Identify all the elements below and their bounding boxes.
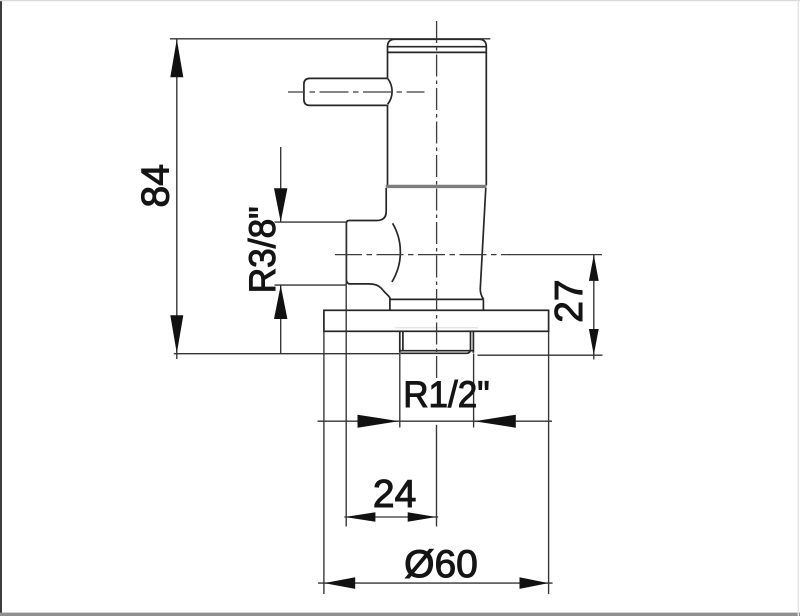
dim O60 extension right xyxy=(548,331,550,594)
cap seam line 1 xyxy=(388,46,487,48)
base ring left side xyxy=(389,299,391,310)
side port centerline extension (solid) xyxy=(507,254,602,256)
top cap outline xyxy=(388,39,487,53)
thread stub inner right xyxy=(470,331,472,350)
cylinder left wall upper xyxy=(387,53,389,78)
ball bulge arc xyxy=(392,223,400,282)
body left outline xyxy=(346,188,390,299)
dim 24 extension right / centerline lower xyxy=(436,425,438,527)
thread stub outer right xyxy=(472,331,474,353)
dim R3/8 extension top xyxy=(275,221,347,223)
dim 84 top extension line xyxy=(170,38,490,40)
thread tip line xyxy=(401,350,471,353)
arrow R1/2 left (points right) xyxy=(358,415,399,428)
arrow R3/8 lower (up) xyxy=(274,285,287,319)
dim 84 line xyxy=(176,39,178,359)
cylinder right wall xyxy=(485,53,487,185)
thread stub inner left xyxy=(402,331,404,350)
svg-text:24: 24 xyxy=(373,473,416,516)
thread crest line xyxy=(400,350,474,352)
main vertical centerline xyxy=(436,21,438,380)
cylinder left wall lower xyxy=(387,105,389,185)
dim R1/2 extension left xyxy=(399,354,401,428)
flange plate xyxy=(324,310,549,331)
page left border xyxy=(0,0,2,616)
side port centerline xyxy=(335,254,507,256)
dim R3/8 line upper xyxy=(280,147,282,222)
svg-text:Ø60: Ø60 xyxy=(404,543,478,586)
arrow 84 bottom xyxy=(170,315,183,353)
dim R3/8 extension bottom xyxy=(275,284,347,286)
base ring right side xyxy=(482,299,484,310)
body right outline (tapered) xyxy=(480,188,486,299)
page top border xyxy=(0,0,800,1)
dim R1/2 line xyxy=(318,420,553,422)
dim O60 extension left xyxy=(323,331,325,594)
svg-text:27: 27 xyxy=(548,279,591,322)
dim O60 line xyxy=(318,582,553,584)
svg-text:R1/2": R1/2" xyxy=(403,373,490,415)
handle end arc on cylinder xyxy=(388,78,392,104)
arrow 24 left (points left) xyxy=(345,512,376,522)
dim R1/2 extension right xyxy=(473,354,475,428)
arrow 27 bottom xyxy=(589,329,599,355)
bottom reference extension line left xyxy=(174,353,400,355)
base ring top xyxy=(389,298,483,300)
thread stub outer left xyxy=(399,331,401,353)
arrow R1/2 right (points left) xyxy=(474,415,515,428)
dim R3/8 line lower xyxy=(280,285,282,354)
page bottom border xyxy=(0,613,800,616)
cap seam line 2 xyxy=(388,51,487,53)
svg-text:84: 84 xyxy=(135,164,178,207)
arrow 27 top xyxy=(589,255,599,281)
dim 24 line xyxy=(344,516,438,518)
arrow 84 top xyxy=(170,39,183,77)
arrow O60 left (points left) xyxy=(324,577,355,589)
flange faint hidden line xyxy=(395,327,478,329)
arrow O60 right (points right) xyxy=(520,577,549,589)
page right border xyxy=(798,0,799,616)
dim 24 extension left xyxy=(345,222,347,526)
bottom reference extension line right xyxy=(478,354,603,356)
handle centerline xyxy=(288,91,425,93)
handle lever outline xyxy=(304,78,388,105)
seam thick gray line xyxy=(386,185,487,188)
arrow R3/8 upper (down) xyxy=(274,188,287,222)
arrow 24 right (points right) xyxy=(408,512,437,522)
svg-text:R3/8": R3/8" xyxy=(241,206,283,293)
dim 27 line xyxy=(593,255,595,360)
